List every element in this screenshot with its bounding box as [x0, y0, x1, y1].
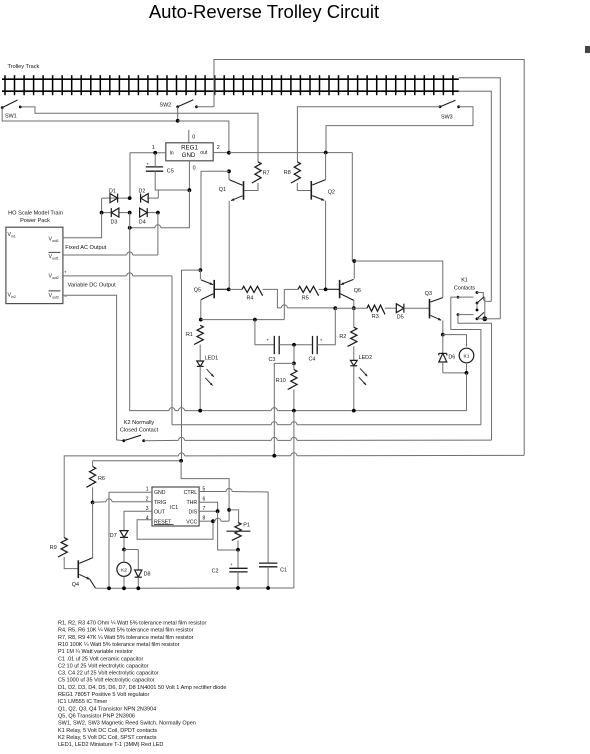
svg-text:2: 2 [217, 145, 220, 151]
junction bridge row2 left [100, 211, 104, 215]
transistor Q6 [326, 261, 361, 300]
svg-text:R10: R10 [276, 378, 286, 384]
wire Q5 emitter left rail [182, 270, 201, 461]
resistor R5 [284, 286, 325, 301]
svg-text:K2 Normally: K2 Normally [124, 420, 155, 426]
svg-text:R3: R3 [372, 314, 379, 320]
svg-text:SW1, SW2, SW3 Magnetic Reed Sw: SW1, SW2, SW3 Magnetic Reed Switch, Norm… [58, 721, 196, 727]
svg-text:C3, C4 22 uf 25 Volt electroly: C3, C4 22 uf 25 Volt electrolytic capaci… [58, 671, 159, 677]
diode D4 [139, 208, 147, 225]
diode D5 [396, 304, 404, 321]
variable DC output label [68, 282, 117, 288]
wire R10 node left down [274, 363, 294, 455]
wire SW1 right to wire A [20, 107, 258, 162]
svg-text:K1: K1 [461, 278, 468, 284]
svg-text:D8: D8 [144, 571, 151, 577]
REG1 pin 0 stub bottom [189, 161, 195, 191]
wire SW1 left to bus B [2, 108, 178, 121]
wire bottom rail [96, 587, 294, 589]
svg-text:0: 0 [193, 165, 196, 171]
junction rail SW3node [324, 151, 328, 155]
svg-text:IC1 LM555 IC Timer: IC1 LM555 IC Timer [58, 699, 107, 705]
junction R2 top [352, 306, 356, 310]
wire 5V rail [229, 153, 352, 261]
wire bridge row2 [102, 212, 158, 214]
junction bridge mid lower [128, 226, 132, 230]
wire R8 bottom to Q2 base [297, 183, 311, 191]
junction bridge row2 mid [128, 211, 132, 228]
svg-text:K2: K2 [121, 568, 127, 574]
svg-text:OUT: OUT [154, 510, 166, 516]
svg-text:C2: C2 [212, 568, 219, 574]
wire pin8 VCC [199, 520, 213, 522]
junction REG1 out [227, 151, 231, 155]
svg-text:C2 10 uf 25 Volt electrolytic: C2 10 uf 25 Volt electrolytic capacitor [58, 663, 149, 669]
svg-text:LED1, LED2 Miniature T-1 (3MM): LED1, LED2 Miniature T-1 (3MM) Red LED [58, 742, 163, 748]
diode D8 [124, 550, 151, 589]
junction SW2-busB [176, 119, 180, 123]
wire TRIG node down [92, 502, 94, 557]
wire C4 right up [317, 308, 335, 345]
junction rail D8 [136, 586, 140, 590]
regulator REG1 box [166, 143, 213, 161]
svg-text:C1: C1 [280, 567, 287, 573]
svg-text:+: + [320, 338, 323, 343]
svg-text:IC1: IC1 [170, 505, 178, 511]
power pack label [8, 211, 63, 225]
svg-text:LED2: LED2 [359, 355, 373, 361]
junction Q1 collector node [227, 169, 231, 173]
parts list [58, 621, 226, 749]
svg-text:C3: C3 [269, 357, 276, 363]
junction C4 node [333, 306, 337, 310]
svg-text:C5: C5 [167, 168, 174, 174]
svg-text:Q1: Q1 [219, 187, 226, 193]
relay coil K1 [459, 348, 474, 363]
svg-text:Fixed AC Output: Fixed AC Output [65, 245, 106, 251]
svg-text:C5 1000 uf 35 Volt electrolyti: C5 1000 uf 35 Volt electrolytic capacito… [58, 678, 155, 684]
plus label var dc [64, 270, 67, 275]
transistor Q5 [194, 270, 229, 300]
resistor R7 [252, 162, 270, 183]
wire C3 to C4 [279, 344, 312, 346]
resistor R3 [367, 305, 385, 320]
wire R9 to Q4 base [64, 557, 78, 569]
REG1 pin 2 wire [213, 145, 229, 153]
wire Q3 emitter down [442, 320, 444, 334]
svg-text:Q5: Q5 [194, 288, 201, 294]
wire Vout1bar to bridge [63, 252, 158, 255]
wire pin3 OUT [124, 511, 152, 530]
svg-text:D6: D6 [448, 354, 455, 360]
capacitor C5 [146, 162, 174, 175]
wire R3 to D5 [385, 307, 396, 309]
wire pin7 DIS [199, 510, 218, 512]
junction gnd node [188, 188, 192, 192]
junction Q5 base node [227, 288, 231, 292]
svg-text:REG1: REG1 [181, 144, 198, 151]
svg-text:Variable DC Output: Variable DC Output [68, 282, 117, 288]
svg-text:+: + [230, 562, 233, 567]
svg-text:Q2: Q2 [328, 189, 335, 195]
diode D3 [111, 208, 119, 225]
wire bus B down to REG out [178, 121, 229, 153]
svg-text:D3: D3 [111, 219, 118, 225]
svg-text:THR: THR [187, 500, 198, 506]
wire C3 left [255, 320, 274, 345]
svg-text:D1, D2, D3, D4, D5, D6, D7, D8: D1, D2, D3, D4, D5, D6, D7, D8 1N4001 50… [58, 685, 226, 691]
resistor R6 [86, 461, 105, 488]
svg-text:C4: C4 [309, 356, 316, 362]
wire pin4 RESET loop [137, 520, 213, 539]
junction rail C2 [236, 586, 240, 590]
wire R6 top [93, 460, 182, 462]
power pack terminal labels [8, 232, 61, 299]
wire bottom rail extension [459, 91, 492, 301]
svg-text:TRIG: TRIG [154, 500, 166, 506]
wire C5 top [154, 153, 156, 167]
LED2 [350, 346, 372, 410]
svg-text:Power Pack: Power Pack [20, 218, 50, 224]
relay coil K2 [117, 550, 131, 589]
wire hop on gnd link [155, 225, 161, 228]
junction rail GND [107, 586, 111, 590]
wire W1 top loop [214, 60, 524, 456]
K2 contact label [120, 420, 159, 433]
junction R10 top [292, 362, 296, 366]
fixed AC output label [65, 245, 106, 251]
K1 contact T1 [476, 291, 492, 301]
IC1 pin numbers [146, 487, 206, 522]
svg-text:Q1, Q2, Q3, Q4 Transistor NPN: Q1, Q2, Q3, Q4 Transistor NPN 2N3904 [58, 706, 156, 712]
svg-text:D4: D4 [139, 219, 146, 225]
wire SW2 pivot down [177, 107, 179, 121]
svg-text:P1 1M ¼ Watt variable resistor: P1 1M ¼ Watt variable resistor [58, 649, 133, 655]
resistor R1 [186, 325, 203, 344]
wire rail to CTRL col [181, 461, 229, 521]
K1 contact left2 [457, 313, 492, 440]
svg-text:R7: R7 [263, 171, 270, 177]
svg-text:R8: R8 [284, 170, 291, 176]
svg-text:D2: D2 [139, 188, 146, 194]
wire Q5 collector down [200, 300, 202, 320]
svg-text:SW2: SW2 [160, 102, 172, 108]
wire pin1 GND [109, 492, 152, 588]
K1 contact lever2 [476, 312, 485, 320]
svg-text:DIS: DIS [189, 510, 198, 516]
wire bridge right down to AC neg [157, 213, 159, 255]
transistor Q1 [219, 171, 244, 201]
resistor R10 [276, 363, 297, 410]
IC1 555 box [152, 487, 199, 526]
svg-text:R1, R2, R3 470 Ohm ¼ Watt 5%: R1, R2, R3 470 Ohm ¼ Watt 5% tolerance m… [58, 621, 207, 627]
junction LED1 line1 [198, 409, 202, 413]
wire R5 left down [283, 289, 285, 319]
capacitor C1 [259, 563, 287, 588]
diode D6 [439, 353, 456, 373]
svg-text:+: + [64, 270, 67, 275]
svg-text:D7: D7 [110, 533, 117, 539]
wire Q6 collector down [353, 300, 355, 308]
wire bus line2 [172, 422, 481, 425]
diode D2 [139, 188, 149, 202]
switch SW3 [439, 100, 460, 120]
svg-text:R9: R9 [50, 545, 57, 551]
svg-text:K2 Relay, 5 Volt DC Coil, SPST: K2 Relay, 5 Volt DC Coil, SPST contacts [58, 735, 157, 741]
wire D5 to Q3 [404, 307, 430, 309]
svg-text:+: + [267, 338, 270, 343]
wire R4 right to R3 line [263, 289, 336, 308]
wire bus line4 [64, 453, 524, 538]
svg-text:Contacts: Contacts [454, 286, 476, 292]
svg-text:Q4: Q4 [72, 582, 79, 588]
trolley track label [8, 64, 40, 70]
svg-text:GND: GND [154, 490, 166, 496]
wire R3 line [335, 307, 367, 309]
junction Q6 base node [324, 288, 328, 292]
wire bus line3 [144, 437, 492, 440]
power pack box [6, 227, 63, 303]
svg-text:REG1 7805T Positive 5 Volt reg: REG1 7805T Positive 5 Volt regulator [58, 692, 149, 698]
svg-text:SW1: SW1 [5, 114, 17, 120]
trolley track rails and ties [2, 75, 459, 95]
svg-text:Trolley Track: Trolley Track [8, 64, 40, 70]
svg-text:GND: GND [182, 152, 196, 159]
svg-text:R5: R5 [302, 295, 309, 301]
junction DIS node [216, 509, 220, 513]
wire Q2 emitter down [325, 201, 327, 290]
LED1 [197, 345, 218, 411]
svg-text:LED1: LED1 [205, 355, 219, 361]
svg-text:R2: R2 [339, 334, 346, 340]
junction Q5 collector [199, 318, 203, 322]
svg-text:P1: P1 [243, 522, 250, 528]
svg-text:Q5, Q6 Transistor PNP 2N3906: Q5, Q6 Transistor PNP 2N3906 [58, 713, 135, 719]
svg-text:0: 0 [192, 134, 195, 140]
svg-text:R6: R6 [98, 476, 105, 482]
svg-text:K1: K1 [464, 354, 470, 360]
svg-text:out1: out1 [52, 257, 59, 261]
junction P1 col [227, 508, 231, 512]
wire R10 to bottom rail [293, 411, 295, 588]
svg-text:R7, R8, R9 47K ¼ Watt 5% tole: R7, R8, R9 47K ¼ Watt 5% tolerance metal… [58, 635, 194, 641]
capacitor C4 [309, 336, 323, 363]
svg-text:in2: in2 [11, 295, 16, 299]
K1 contact pole wire [484, 297, 486, 319]
junction P1 bottom [236, 548, 240, 552]
junction line4 C3node [272, 454, 276, 458]
wire bus line1 [130, 228, 467, 411]
svg-text:out: out [200, 150, 208, 156]
junction rail K2 [122, 586, 126, 590]
K1 contacts label [454, 278, 476, 292]
diode D1 [109, 188, 118, 202]
title [149, 1, 379, 22]
svg-text:out1: out1 [52, 239, 59, 243]
junction Q6 emitter node [352, 259, 356, 263]
junction K1 bottom [465, 371, 469, 375]
REG1 pin 1 wire [130, 145, 166, 153]
REG1 text [170, 144, 208, 159]
svg-text:4: 4 [146, 516, 149, 522]
svg-text:R4, R5, R6 10K ¼ Watt 5% tole: R4, R5, R6 10K ¼ Watt 5% tolerance metal… [58, 628, 194, 634]
svg-text:R10 100K ¼ Watt 5% tolerance m: R10 100K ¼ Watt 5% tolerance metal film … [58, 642, 180, 648]
K1 contact lever1 [476, 297, 485, 305]
wire P1 top [229, 510, 239, 523]
wire K1 coil bottom [443, 364, 467, 373]
potentiometer P1 [227, 522, 251, 540]
svg-text:D1: D1 [109, 188, 116, 194]
edge mark [585, 46, 590, 53]
switch SW1 [1, 100, 22, 120]
wire VCC to CTRL col [213, 518, 229, 521]
junction TRIG node [91, 501, 95, 505]
svg-text:In: In [170, 151, 174, 157]
junction bridge row2 right [156, 211, 160, 215]
wire SW2 contact to track [197, 106, 215, 108]
wire Q1 node to Q5 emitter [201, 171, 229, 270]
wire Q3e to D6 [442, 335, 444, 353]
junction C3C4 [292, 343, 296, 347]
junction R6 rail [179, 459, 183, 463]
K1 contact left1 [451, 296, 481, 425]
diode D7 [110, 531, 128, 550]
svg-text:Q6: Q6 [354, 288, 361, 294]
switch SW2 [160, 100, 198, 109]
wire K1 coil top [443, 335, 467, 347]
svg-text:D5: D5 [397, 314, 404, 320]
wire Vout1 to bridge [63, 213, 102, 238]
transistor Q3 [425, 291, 443, 320]
wire K1 bottom to line1 [466, 373, 468, 411]
wire SW3 contact loop [326, 107, 473, 153]
junction VCC node [211, 519, 215, 523]
K1 contact common [477, 316, 500, 321]
svg-text:VCC: VCC [186, 519, 197, 525]
svg-text:R4: R4 [247, 295, 254, 301]
junction Q3 emitter node [441, 333, 445, 337]
wire R6 bottom [92, 487, 94, 502]
svg-text:SW3: SW3 [441, 115, 453, 121]
wire C3C4 down [293, 345, 295, 364]
wire pin5 CTRL [199, 489, 268, 564]
IC1 labels [154, 490, 198, 525]
wire Q5 collector line [201, 319, 284, 321]
wire Q1 emitter down [228, 201, 230, 290]
wire top rail extension [459, 78, 501, 319]
svg-text:in1: in1 [11, 234, 16, 238]
svg-text:HO Scale Model Train: HO Scale Model Train [8, 211, 63, 217]
junction R10 line1 [292, 409, 296, 413]
junction K2 top [122, 548, 126, 552]
wire P1 to C2 [237, 550, 239, 569]
svg-text:Closed Contact: Closed Contact [120, 427, 159, 433]
svg-text:Auto-Reverse Trolley Circuit: Auto-Reverse Trolley Circuit [149, 1, 379, 22]
wire pin2 TRIG [93, 499, 152, 502]
transistor Q4 [72, 558, 96, 588]
wire Q6 emitter to Q3 collector [354, 261, 443, 298]
capacitor C2 [212, 562, 248, 588]
svg-text:out2: out2 [52, 295, 59, 299]
wire SW3 pivot to R8 top [297, 107, 440, 162]
svg-text:C1 .01 uf 25 Volt ceramic cap: C1 .01 uf 25 Volt ceramic capacitor [58, 656, 143, 662]
svg-text:R1: R1 [186, 332, 193, 338]
junction REG1 in [153, 151, 157, 155]
junction bridge row1 mid [128, 196, 132, 200]
svg-text:out2: out2 [52, 276, 59, 280]
wire R7 bottom to Q1 base [244, 183, 258, 191]
junction LED2 line1 [352, 409, 356, 413]
switch K2 NC contact [122, 435, 145, 442]
svg-text:K1 Relay, 5 Volt DC Coil, DPDT: K1 Relay, 5 Volt DC Coil, DPDT contacts [58, 728, 157, 734]
wire pin6 THR [199, 502, 218, 511]
wire Vout2 to line2 [63, 273, 172, 425]
svg-text:Q3: Q3 [425, 291, 432, 297]
wire DIS down to P1 bottom [218, 511, 238, 550]
wire Vout2bar down [63, 295, 123, 440]
junction rail C1 [266, 586, 270, 590]
resistor R9 [50, 538, 67, 557]
wire C5 bottom to gnd node [155, 171, 189, 190]
svg-text:CTRL: CTRL [184, 490, 198, 496]
REG1 pin 0 stub top [189, 130, 196, 143]
svg-text:6: 6 [203, 496, 206, 502]
wire gnd node down [130, 190, 190, 228]
wire P1 bottom [237, 540, 239, 549]
wire REG1 in down to bridge [129, 153, 131, 198]
resistor R8 [284, 162, 301, 183]
transistor Q2 [311, 153, 335, 201]
junction R1 top [253, 318, 257, 322]
junction Q5 emitter node [199, 268, 203, 272]
capacitor C3 [267, 336, 280, 363]
svg-text:+: + [147, 162, 150, 167]
resistor R4 [229, 286, 263, 301]
K1 contact link [476, 303, 479, 311]
minus label var dc [64, 294, 67, 299]
svg-text:1: 1 [152, 145, 155, 151]
wire bridge row1 [102, 190, 159, 213]
resistor R2 [339, 308, 357, 346]
